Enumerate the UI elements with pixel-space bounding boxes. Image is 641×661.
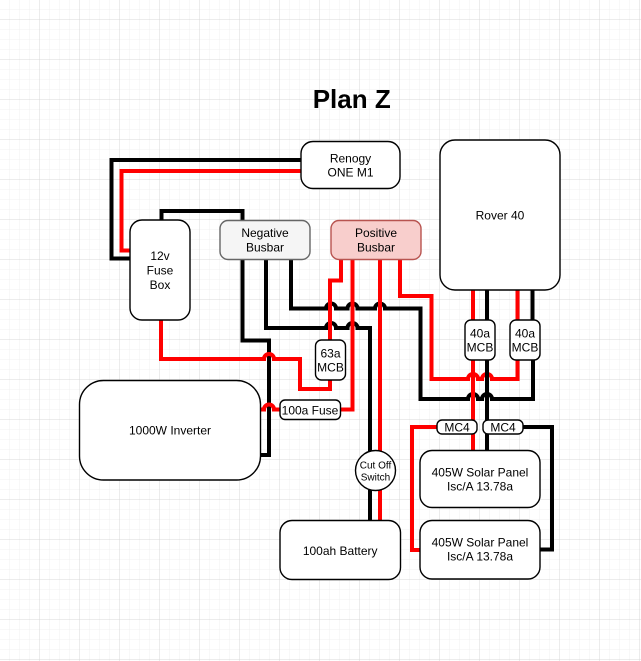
svg-text:Rover 40: Rover 40 [476, 208, 525, 222]
svg-text:Cut Off: Cut Off [360, 460, 392, 471]
box 100a Fuse [280, 400, 341, 420]
wire red Rover 40 to 40a MCB 1 [471, 290, 475, 320]
wire red 100a Fuse left to Inverter [260, 405, 280, 410]
svg-text:405W Solar Panel: 405W Solar Panel [432, 535, 529, 549]
svg-text:MCB: MCB [317, 361, 344, 375]
wire black Rover 40 to 40a MCB 1 [485, 290, 489, 320]
box Rover 40 [440, 140, 560, 290]
wire red Positive Busbar to 63a MCB top [330, 260, 341, 340]
wire black MC4 2 to Solar Panel 2 right [523, 427, 552, 550]
box 405W Solar Panel 2 [420, 521, 540, 580]
svg-text:Positive: Positive [355, 226, 397, 240]
box 63a MCB [316, 340, 346, 380]
svg-text:Busbar: Busbar [246, 241, 284, 255]
wire red Renogy to 12v Fuse Box left [122, 171, 301, 251]
box 1000W Inverter [80, 381, 261, 481]
svg-text:40a: 40a [515, 326, 535, 340]
box 12v Fuse Box [130, 220, 190, 320]
wire red 40a MCB 1 to Solar Panel 1 through MC4 1 [471, 360, 475, 450]
svg-text:MC4: MC4 [490, 420, 516, 434]
wire black Negative Busbar to Inverter [243, 260, 270, 455]
wire black Rover 40 to 40a MCB 2 [531, 290, 535, 320]
wire red Positive Busbar to 100a Fuse right [341, 260, 353, 410]
box 405W Solar Panel 1 [420, 451, 540, 508]
cut off switch circle [356, 451, 396, 491]
wire black 12v Fuse Box top to Negative Busbar top [162, 211, 243, 220]
svg-text:100a Fuse: 100a Fuse [282, 403, 339, 417]
box Renogy ONE M1 [301, 142, 400, 189]
wire black Renogy to 12v Fuse Box left [112, 160, 301, 259]
box 40a MCB 1 [465, 320, 495, 360]
svg-text:Renogy: Renogy [330, 151, 371, 165]
svg-text:MCB: MCB [467, 341, 494, 355]
box MC4 1 [437, 420, 477, 434]
box 40a MCB 2 [510, 320, 540, 360]
svg-text:63a: 63a [320, 346, 340, 360]
svg-text:Isc/A 13.78a: Isc/A 13.78a [447, 480, 513, 494]
wire red Positive Busbar to Battery through Cut Off Switch [378, 260, 382, 520]
svg-text:Negative: Negative [241, 226, 289, 240]
svg-text:ONE M1: ONE M1 [327, 166, 373, 180]
box Negative Busbar [220, 221, 310, 260]
svg-text:MCB: MCB [512, 341, 539, 355]
svg-text:Box: Box [150, 278, 171, 292]
box MC4 2 [483, 420, 523, 434]
wire red 63a MCB bottom to 12v Fuse Box bottom [161, 320, 330, 389]
svg-text:Busbar: Busbar [357, 241, 395, 255]
svg-text:MC4: MC4 [444, 420, 470, 434]
box Positive Busbar [331, 221, 421, 260]
svg-text:100ah Battery: 100ah Battery [303, 544, 378, 558]
wire red Rover 40 to 40a MCB 2 [516, 290, 520, 320]
svg-text:Isc/A 13.78a: Isc/A 13.78a [447, 550, 513, 564]
wire black Negative Busbar to Battery [266, 260, 370, 520]
svg-text:405W Solar Panel: 405W Solar Panel [432, 465, 529, 479]
wire red Positive Busbar to 40a MCB 2 [400, 260, 518, 379]
wire black Negative Busbar to 40a MCB 2 [291, 260, 533, 399]
svg-text:1000W Inverter: 1000W Inverter [129, 423, 211, 437]
svg-text:12v: 12v [150, 249, 169, 263]
svg-text:Fuse: Fuse [147, 264, 174, 278]
svg-text:Switch: Switch [361, 472, 390, 483]
wire black 40a MCB 1 to Solar Panel 1 through MC4 2 [485, 360, 489, 450]
svg-text:40a: 40a [470, 326, 490, 340]
svg-text:Plan Z: Plan Z [313, 84, 391, 114]
box 100ah Battery [280, 521, 401, 580]
wire red MC4 1 to Solar Panel 2 left [412, 427, 437, 550]
